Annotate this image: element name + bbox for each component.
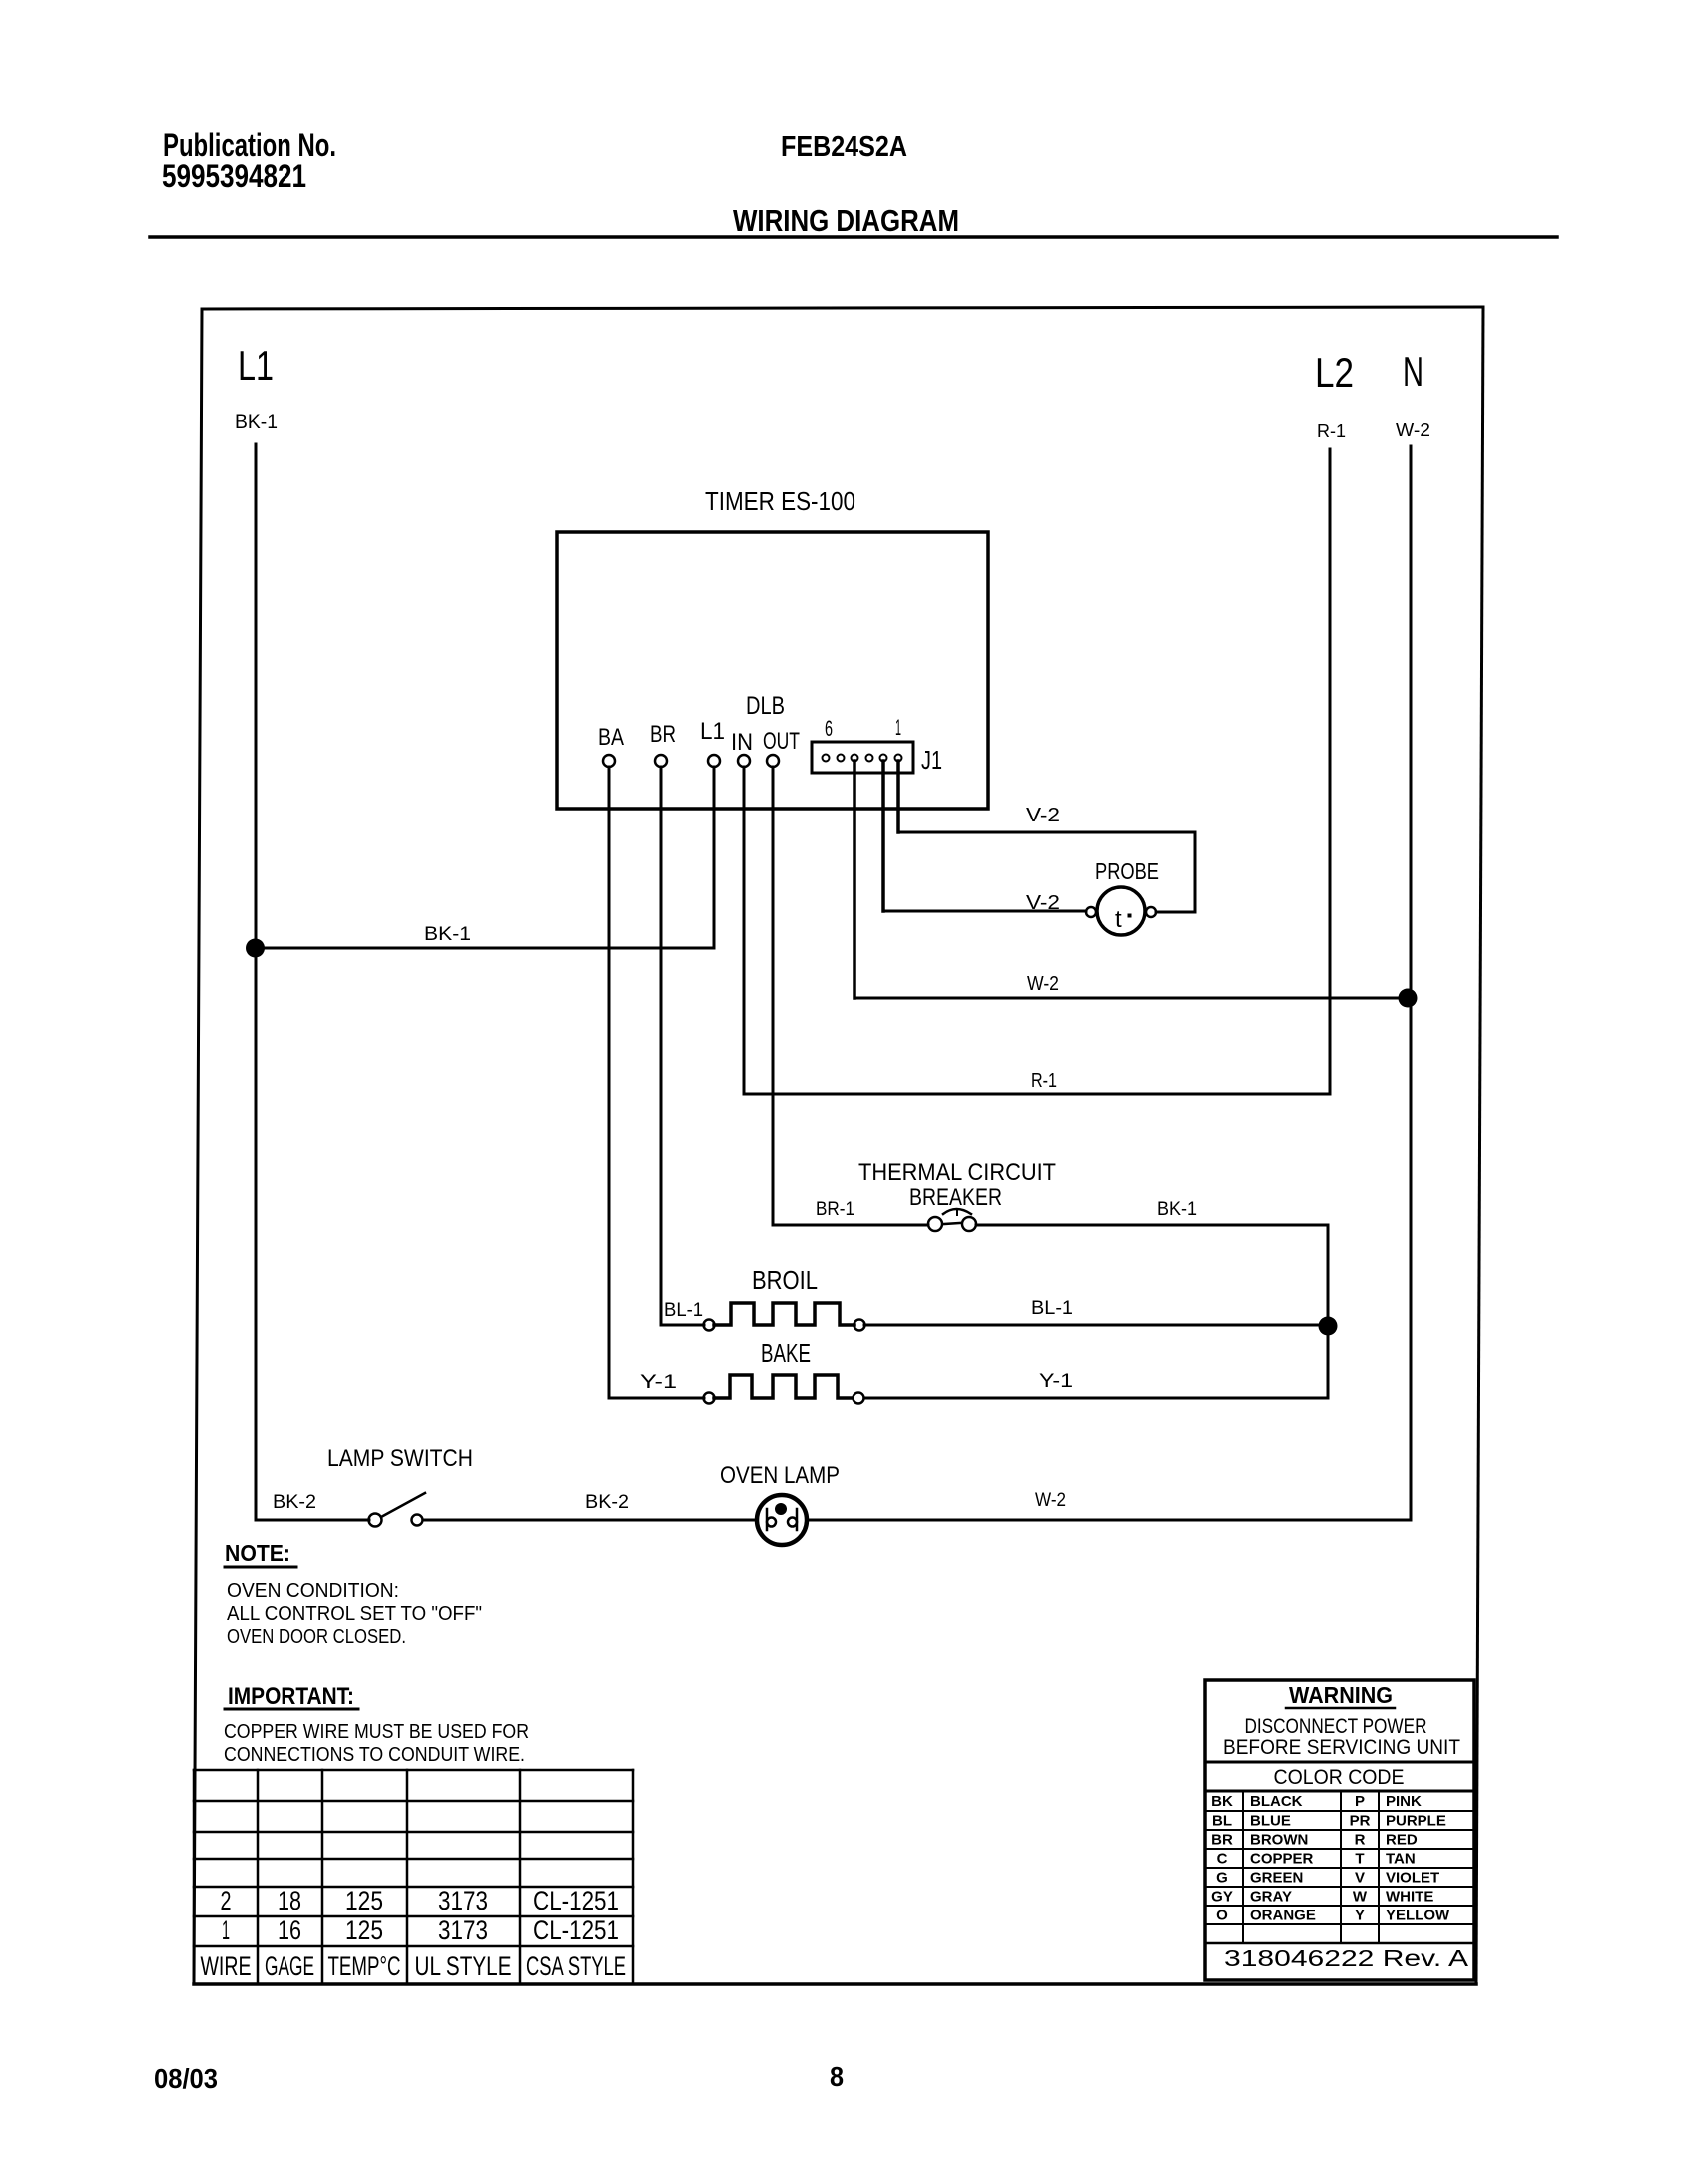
lamp switch S1 left contact: [369, 1514, 382, 1527]
diagram border bottom: [194, 1982, 1476, 1986]
svg-text:V-2: V-2: [1026, 805, 1060, 826]
warning divider: [1205, 1761, 1474, 1764]
wire BK-2 from switch to oven lamp: [423, 1519, 756, 1522]
svg-text:TIMER ES-100: TIMER ES-100: [705, 486, 855, 516]
svg-text:FEB24S2A: FEB24S2A: [781, 131, 907, 163]
svg-text:5995394821: 5995394821: [162, 158, 306, 194]
svg-text:125: 125: [345, 1886, 383, 1915]
svg-text:BROWN: BROWN: [1250, 1832, 1308, 1849]
svg-text:GREEN: GREEN: [1250, 1870, 1303, 1887]
oven lamp filament dot: [775, 1503, 787, 1515]
svg-text:BL-1: BL-1: [664, 1300, 703, 1321]
junction dot on BK-1 at tap: [246, 939, 265, 958]
svg-text:OVEN DOOR CLOSED.: OVEN DOOR CLOSED.: [227, 1626, 406, 1648]
svg-text:BR: BR: [650, 721, 676, 748]
svg-text:DLB: DLB: [746, 692, 785, 720]
bake element left terminal: [704, 1393, 715, 1404]
svg-text:OVEN LAMP: OVEN LAMP: [720, 1462, 840, 1489]
svg-text:R: R: [1355, 1832, 1366, 1849]
wire gauge table grid: [194, 1770, 633, 1984]
probe degree dot: [1128, 914, 1132, 918]
important underline: [225, 1708, 358, 1711]
svg-text:BAKE: BAKE: [761, 1338, 811, 1367]
svg-text:16: 16: [278, 1915, 301, 1945]
thermal circuit breaker CB1 right contact: [962, 1217, 976, 1231]
svg-text:BREAKER: BREAKER: [909, 1184, 1002, 1211]
probe body: [1097, 887, 1145, 935]
color code rows: [1211, 1793, 1450, 1924]
svg-text:ALL CONTROL SET TO "OFF": ALL CONTROL SET TO "OFF": [227, 1603, 482, 1625]
wire from BA terminal down: [608, 767, 611, 1398]
broil heating element: [714, 1303, 854, 1325]
svg-text:PURPLE: PURPLE: [1386, 1813, 1446, 1830]
bake element right terminal: [854, 1393, 864, 1404]
wire from J1 pin 4 down (W-2): [853, 761, 856, 998]
svg-text:3173: 3173: [438, 1886, 488, 1915]
oven lamp terminal q circle: [788, 1518, 797, 1527]
svg-text:WIRE: WIRE: [201, 1951, 252, 1981]
breaker arc: [943, 1209, 971, 1214]
table row 1 wire: [222, 1915, 619, 1945]
timer terminal DLB IN: [738, 755, 750, 767]
broil element right terminal: [854, 1320, 865, 1331]
svg-text:LAMP SWITCH: LAMP SWITCH: [327, 1445, 473, 1472]
svg-text:PROBE: PROBE: [1095, 858, 1159, 884]
svg-text:T: T: [1355, 1851, 1364, 1868]
svg-text:BK-1: BK-1: [424, 924, 471, 945]
svg-text:L1: L1: [238, 342, 274, 389]
svg-text:V-2: V-2: [1026, 892, 1060, 914]
thermal circuit breaker CB1 left contact: [928, 1217, 942, 1231]
broil element left terminal: [704, 1320, 715, 1331]
svg-text:18: 18: [278, 1886, 301, 1915]
svg-text:UL STYLE: UL STYLE: [415, 1951, 512, 1981]
svg-text:COLOR CODE: COLOR CODE: [1274, 1766, 1405, 1789]
J1 pin 3: [866, 755, 873, 762]
wire Y-1 right: [864, 1397, 1328, 1400]
timer terminal BR: [655, 755, 667, 767]
wire BK-1 vertical from L1: [255, 444, 258, 1520]
color code divider: [1205, 1790, 1474, 1793]
wire BL-1 right: [864, 1324, 1328, 1327]
svg-text:DISCONNECT POWER: DISCONNECT POWER: [1245, 1715, 1427, 1738]
wire BK-1 horizontal tap to timer L1 terminal: [256, 947, 714, 950]
oven lamp terminal b circle: [767, 1518, 776, 1527]
svg-text:BK-1: BK-1: [235, 412, 278, 433]
svg-text:J1: J1: [921, 745, 942, 775]
wire BK-2 from L1 to lamp switch: [256, 1519, 369, 1522]
note underline: [225, 1566, 296, 1569]
svg-text:BROIL: BROIL: [752, 1265, 818, 1295]
table header row: [201, 1951, 627, 1981]
color code grid: [1205, 1791, 1474, 1943]
table row 2 wire: [221, 1886, 620, 1915]
svg-text:GRAY: GRAY: [1250, 1889, 1292, 1906]
timer terminal BA: [603, 755, 615, 767]
wire from J1 pin 1 down (V-2): [896, 761, 900, 832]
svg-text:Y: Y: [1355, 1908, 1365, 1924]
probe left terminal: [1086, 907, 1096, 917]
timer U1 box TIMER ES-100: [557, 532, 988, 809]
svg-text:G: G: [1216, 1870, 1228, 1887]
connector J1 box: [812, 742, 913, 773]
warning underline: [1286, 1707, 1395, 1710]
svg-text:GAGE: GAGE: [265, 1951, 314, 1981]
svg-text:BL: BL: [1212, 1813, 1232, 1830]
bake heating element: [714, 1375, 853, 1398]
timer terminal DLB OUT: [767, 755, 779, 767]
svg-text:8: 8: [830, 2061, 844, 2092]
diagram border right: [1476, 307, 1483, 1984]
svg-text:BL-1: BL-1: [1031, 1298, 1073, 1319]
wire from L1 terminal down: [713, 767, 716, 948]
junction dot broil/bake right: [1319, 1317, 1338, 1336]
svg-text:YELLOW: YELLOW: [1386, 1908, 1450, 1924]
J1 pin 2: [880, 755, 887, 762]
svg-text:Y-1: Y-1: [1039, 1371, 1073, 1392]
svg-text:318046222 Rev. A: 318046222 Rev. A: [1224, 1945, 1469, 1971]
timer terminal L1: [708, 755, 720, 767]
svg-text:TEMP°C: TEMP°C: [328, 1951, 401, 1981]
svg-text:IMPORTANT:: IMPORTANT:: [228, 1683, 354, 1710]
wire W-2 from lamp to N: [807, 1519, 1411, 1522]
svg-text:BR-1: BR-1: [816, 1199, 854, 1220]
svg-text:6: 6: [825, 716, 833, 741]
breaker bimetal dash: [944, 1223, 960, 1224]
J1 pin 1: [895, 755, 902, 762]
J1 pin 6: [823, 755, 830, 762]
lamp switch arm: [381, 1493, 425, 1517]
warning box border: [1205, 1680, 1474, 1980]
svg-text:THERMAL CIRCUIT: THERMAL CIRCUIT: [858, 1159, 1056, 1186]
svg-text:BLUE: BLUE: [1250, 1813, 1291, 1830]
svg-text:1: 1: [895, 715, 901, 740]
svg-text:WIRING DIAGRAM: WIRING DIAGRAM: [733, 203, 959, 238]
svg-text:L1: L1: [700, 718, 725, 745]
junction dot W-2 at N wire: [1399, 989, 1418, 1008]
svg-text:W-2: W-2: [1035, 1490, 1066, 1511]
svg-text:3173: 3173: [438, 1915, 488, 1945]
svg-text:CL-1251: CL-1251: [533, 1915, 619, 1945]
svg-text:L2: L2: [1315, 349, 1354, 396]
wire BR-1 from OUT to breaker: [773, 1224, 928, 1227]
svg-text:V: V: [1355, 1870, 1365, 1887]
svg-text:TAN: TAN: [1386, 1851, 1416, 1868]
svg-text:125: 125: [345, 1915, 383, 1945]
header rule: [150, 235, 1557, 239]
svg-text:PR: PR: [1350, 1813, 1371, 1830]
svg-text:BK-1: BK-1: [1157, 1199, 1197, 1220]
svg-text:BK-2: BK-2: [273, 1492, 316, 1513]
svg-text:RED: RED: [1386, 1832, 1418, 1849]
probe right terminal: [1146, 907, 1156, 917]
svg-text:CL-1251: CL-1251: [533, 1886, 619, 1915]
breaker arc tick: [956, 1209, 958, 1215]
wire W-2 horizontal: [854, 997, 1408, 1000]
svg-text:PINK: PINK: [1386, 1793, 1422, 1810]
svg-text:R-1: R-1: [1317, 421, 1346, 441]
svg-text:COPPER: COPPER: [1250, 1851, 1314, 1868]
wire BA turn to bake element: [609, 1397, 704, 1400]
svg-text:WHITE: WHITE: [1386, 1889, 1433, 1906]
wire V-2 upper to probe right: [898, 832, 1195, 912]
oven lamp terminal q stem: [796, 1509, 799, 1530]
svg-text:CSA STYLE: CSA STYLE: [526, 1951, 626, 1981]
svg-text:OVEN CONDITION:: OVEN CONDITION:: [227, 1580, 399, 1602]
oven lamp terminal b stem: [766, 1509, 769, 1530]
svg-text:BK-2: BK-2: [585, 1492, 629, 1513]
svg-text:OUT: OUT: [763, 728, 800, 755]
svg-text:IN: IN: [731, 729, 753, 756]
svg-text:W: W: [1353, 1889, 1368, 1906]
svg-text:BEFORE SERVICING UNIT: BEFORE SERVICING UNIT: [1223, 1736, 1460, 1759]
wire from BR terminal down: [660, 767, 663, 1325]
svg-text:W-2: W-2: [1396, 420, 1430, 440]
svg-text:O: O: [1216, 1908, 1228, 1924]
svg-text:2: 2: [221, 1886, 232, 1915]
svg-text:Y-1: Y-1: [640, 1372, 677, 1393]
wire W-2 vertical from N: [1410, 446, 1413, 1520]
wire BR turn to broil element: [661, 1324, 704, 1327]
diagram border left: [194, 309, 202, 1984]
svg-text:WARNING: WARNING: [1289, 1682, 1393, 1708]
svg-text:BR: BR: [1211, 1832, 1233, 1849]
oven lamp DS1 body: [757, 1495, 807, 1545]
wire R-1 from L2 down and to IN: [744, 449, 1330, 1094]
J1 pin 5: [838, 755, 845, 762]
svg-text:N: N: [1403, 348, 1423, 395]
svg-text:GY: GY: [1211, 1889, 1233, 1906]
J1 pin 4: [852, 755, 858, 762]
diagram border top: [202, 307, 1483, 309]
svg-text:ORANGE: ORANGE: [1250, 1908, 1316, 1924]
wire BK-1 from breaker to right vertical: [976, 1225, 1328, 1398]
svg-text:t: t: [1115, 906, 1122, 933]
svg-text:W-2: W-2: [1027, 973, 1059, 995]
svg-text:BLACK: BLACK: [1250, 1793, 1303, 1810]
wire from OUT terminal down: [772, 767, 775, 1225]
svg-text:R-1: R-1: [1031, 1070, 1057, 1092]
svg-text:VIOLET: VIOLET: [1386, 1870, 1439, 1887]
svg-text:P: P: [1355, 1793, 1365, 1810]
svg-text:C: C: [1217, 1851, 1228, 1868]
svg-text:1: 1: [222, 1915, 230, 1945]
wire from J1 pin 2 down (V-2): [881, 761, 885, 911]
wire V-2 middle to probe left: [883, 910, 1086, 913]
svg-text:COPPER WIRE MUST BE USED FOR: COPPER WIRE MUST BE USED FOR: [224, 1721, 529, 1743]
svg-text:BA: BA: [598, 724, 624, 751]
svg-text:08/03: 08/03: [154, 2063, 218, 2094]
svg-text:CONNECTIONS TO CONDUIT WIRE.: CONNECTIONS TO CONDUIT WIRE.: [224, 1744, 525, 1766]
svg-text:BK: BK: [1211, 1793, 1233, 1810]
svg-text:NOTE:: NOTE:: [225, 1540, 290, 1566]
lamp switch S1 right contact: [412, 1515, 423, 1526]
wire from IN terminal down: [743, 767, 746, 1094]
